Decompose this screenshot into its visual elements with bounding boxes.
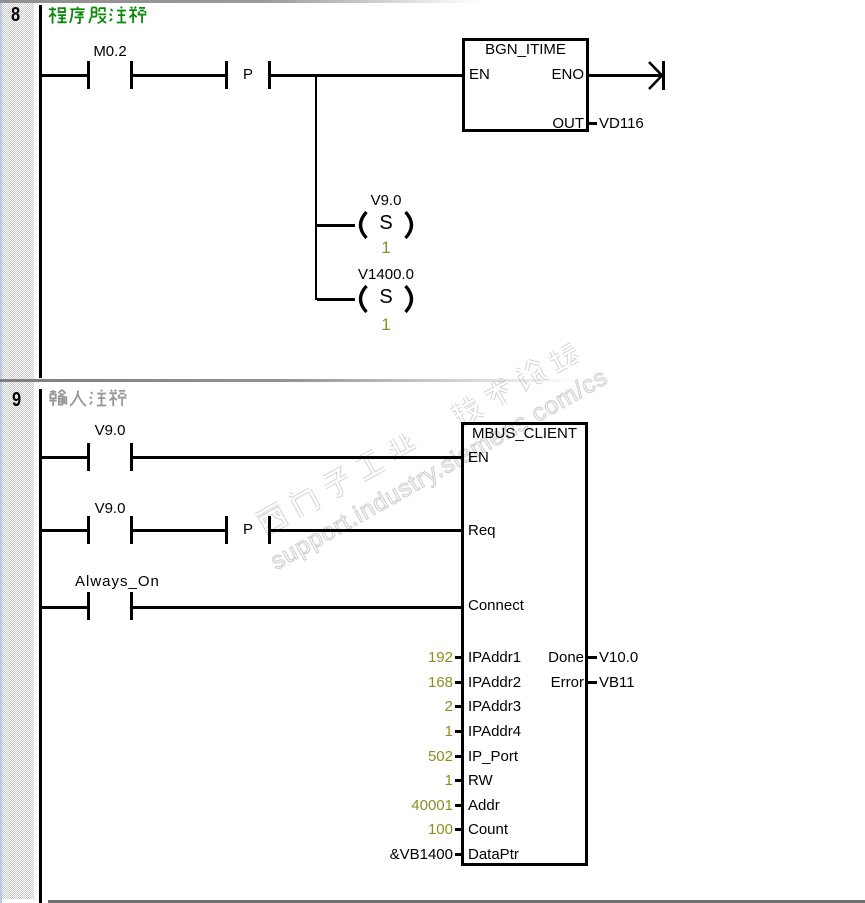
wire contact to EN pin <box>133 456 461 459</box>
pin Count value 100 <box>330 822 453 837</box>
branch junction vertical wire <box>315 76 318 300</box>
pin EN <box>469 67 490 82</box>
network number 9 <box>12 389 21 412</box>
pin Req <box>468 523 496 538</box>
contact Always_On <box>87 592 90 620</box>
wire rail to contact M0.2 <box>42 74 87 77</box>
contact V9.0 EN row <box>87 443 90 471</box>
pin Error operand VB11 <box>519 675 584 690</box>
pin OUT <box>520 116 584 131</box>
watermark line 1 (chinese) <box>252 334 590 539</box>
wire ENO out <box>589 74 662 77</box>
contact M0.2 <box>87 61 90 89</box>
wire contact to Connect pin <box>133 606 461 609</box>
pin EN <box>468 450 489 465</box>
wire to P contact Req row <box>133 529 225 532</box>
pin Connect <box>468 598 524 613</box>
wire P to Req pin <box>271 529 461 532</box>
pin Done operand V10.0 <box>519 650 584 665</box>
bottom separator <box>48 900 865 903</box>
pin IP_Port value 502 <box>330 749 453 764</box>
pin ENO <box>520 67 584 82</box>
coil V1400.0 set <box>350 279 422 319</box>
contact P positive edge <box>225 61 228 89</box>
wire M0.2 to P contact <box>133 74 225 77</box>
contact V9.0 Req row <box>87 516 90 544</box>
wire P to BGN_ITIME <box>271 74 462 77</box>
pin IPAddr1 value 192 <box>330 650 453 665</box>
network 8 separator <box>0 0 480 3</box>
contact P positive edge Req row <box>225 516 228 544</box>
network 9 left power rail <box>39 389 42 903</box>
function block BGN_ITIME <box>462 38 589 132</box>
OUT operand VD116 <box>589 122 597 125</box>
pin IPAddr2 value 168 <box>330 675 453 690</box>
left pane blue edge <box>0 0 2 903</box>
watermark line 2 (latin) <box>266 363 613 576</box>
network 9 title comment (gray) <box>48 389 128 408</box>
wire rail to contact Always_On <box>42 606 87 609</box>
pin IPAddr3 value 2 <box>330 699 453 714</box>
network number gutter strip <box>2 0 34 899</box>
network 8 title comment (green) <box>48 6 148 25</box>
pin IPAddr4 value 1 <box>330 724 453 739</box>
glyph definitions for CJK comment/watermark text (drawn, no CJK font available) <box>0 0 1 1</box>
network 8 left power rail <box>39 5 42 378</box>
wire branch to coil V1400.0 <box>317 298 355 301</box>
wire rail to contact V9.0 Req row <box>42 529 87 532</box>
network number 8 <box>11 4 20 27</box>
network 9 separator <box>0 379 580 382</box>
wire branch to coil V9.0 <box>317 224 355 227</box>
pin RW value 1 <box>330 773 453 788</box>
continuation arrow <box>644 57 668 95</box>
function block MBUS_CLIENT <box>461 422 588 866</box>
pin DataPtr value &VB1400 <box>330 847 453 862</box>
coil V9.0 set <box>350 205 422 245</box>
pin Addr value 40001 <box>330 798 453 813</box>
wire rail to contact V9.0 EN row <box>42 456 87 459</box>
